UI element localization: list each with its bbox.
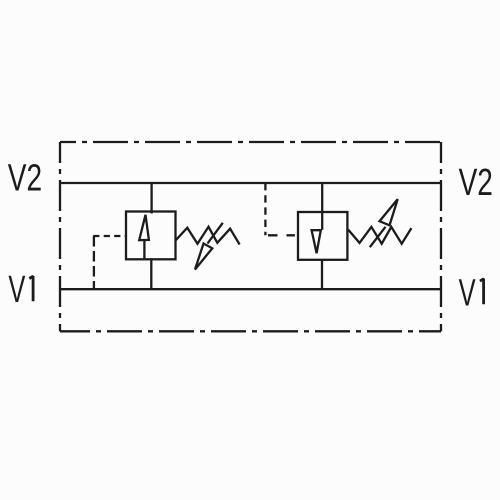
port line V1 <box>60 288 440 290</box>
svg-text:V2: V2 <box>8 158 42 200</box>
wire: relief valve RV1 box bottom down to V1 <box>150 259 152 290</box>
valve body envelope (dash-dot) left edge <box>59 142 61 331</box>
pilot line RV2 (dashed) vertical run from V2 <box>264 183 266 235</box>
svg-text:V: V <box>459 272 476 314</box>
relief valve RV1 adjustment arrowhead (points down-left) <box>195 244 212 270</box>
relief valve RV2 flow arrowhead (points down) <box>312 230 321 253</box>
wire: V2 down into relief valve RV2 box to arrowhead <box>321 183 323 230</box>
wire: relief valve RV2 box bottom down to V1 <box>321 260 323 290</box>
pilot line RV2 (dashed) horizontal run to box <box>268 234 298 236</box>
label V1 right: glyph 1 <box>480 279 484 305</box>
valve body envelope (dash-dot) right edge <box>440 142 442 331</box>
svg-text:V2: V2 <box>459 162 493 204</box>
port line V2 <box>60 182 440 184</box>
valve body envelope (dash-dot) bottom edge <box>60 330 441 332</box>
relief valve RV1 adjustment arrow shaft <box>208 223 223 244</box>
valve body envelope (dash-dot) top edge <box>60 141 441 143</box>
relief valve RV1 spring <box>176 227 240 245</box>
svg-text:V: V <box>8 269 25 311</box>
relief valve RV2 spring <box>348 227 411 244</box>
pilot line RV1 (dashed) vertical run down to V1 <box>93 236 95 289</box>
pilot line RV1 (dashed) horizontal run to box <box>93 235 126 237</box>
label V1 left: glyph 1 <box>29 276 33 301</box>
relief valve RV1 flow arrowhead (points up) <box>139 215 149 240</box>
wire: V2 down to relief valve RV1 box top <box>150 183 152 214</box>
relief valve RV1 flow arrow shaft <box>143 240 145 259</box>
relief valve RV1 envelope box <box>126 212 176 260</box>
relief valve RV2 adjustment arrowhead (points up-right) <box>380 199 398 225</box>
relief valve RV2 envelope box <box>298 212 347 260</box>
relief valve RV2 adjustment arrow shaft <box>370 227 386 247</box>
